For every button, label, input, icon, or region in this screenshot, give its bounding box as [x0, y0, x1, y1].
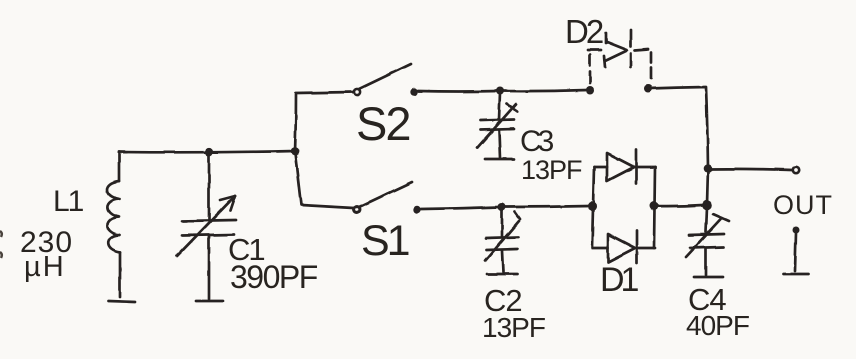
- svg-text:D1: D1: [600, 261, 639, 299]
- wire node B down and right to switch S1: [295, 153, 354, 208]
- svg-text:µH: µH: [24, 251, 66, 283]
- diode pair D1: [592, 150, 655, 263]
- capacitor C4: [689, 207, 724, 275]
- wire OUT node down to node C4: [707, 169, 708, 204]
- ground bar C1: [196, 300, 223, 303]
- node D1 left: [588, 202, 597, 211]
- svg-text:OUT: OUT: [773, 190, 833, 220]
- node junction C1 top: [205, 148, 213, 156]
- node D1 right: [650, 202, 659, 211]
- svg-text:L1: L1: [53, 185, 84, 218]
- node C2 top: [498, 203, 506, 211]
- ground bar C4: [694, 276, 723, 279]
- svg-text:13PF: 13PF: [521, 155, 582, 185]
- switch S1: [354, 182, 421, 213]
- wire OUT node to terminal: [708, 169, 792, 170]
- wire D1 right to node C4: [654, 205, 703, 206]
- svg-text:S1: S1: [361, 217, 409, 265]
- svg-text:C3: C3: [520, 125, 554, 158]
- terminal OUT ground: [783, 227, 808, 275]
- ground bar C2: [487, 273, 517, 276]
- capacitor C2: [486, 209, 518, 272]
- capacitor C3: [481, 93, 514, 158]
- node D2 right: [644, 85, 652, 93]
- terminal OUT open circle: [793, 167, 799, 173]
- ground bar C3: [485, 158, 514, 161]
- svg-text:390PF: 390PF: [230, 259, 318, 295]
- node C4 junction: [702, 200, 712, 210]
- wire S1 to node C2: [421, 207, 500, 209]
- node C3 top: [496, 87, 504, 95]
- wire D2 right corner down to OUT node: [648, 87, 708, 168]
- node D2 left: [586, 86, 594, 94]
- inductor L1: [107, 152, 120, 297]
- node OUT junction: [704, 164, 713, 173]
- diode D2 (dashed): [588, 30, 651, 83]
- svg-text:S2: S2: [356, 97, 410, 150]
- wire S2 to node C3: [418, 90, 498, 93]
- wire node C2 to node D1-left: [502, 206, 590, 207]
- capacitor C1: [182, 154, 236, 299]
- ground bar L1: [108, 301, 135, 302]
- arrow of variable capacitor C3: [477, 104, 517, 148]
- wire top-left horizontal from L1 top to node B: [119, 151, 295, 152]
- arrow of variable capacitor C1: [177, 196, 235, 256]
- node junction B: [291, 147, 300, 156]
- svg-text:13PF: 13PF: [482, 312, 545, 343]
- stray scan mark left edge upper: [0, 231, 2, 237]
- svg-text:D2: D2: [565, 13, 603, 50]
- stray scan mark left edge lower: [0, 252, 2, 258]
- wire node C3 to node D2-left: [500, 90, 588, 91]
- arrow of variable capacitor C4: [686, 214, 729, 257]
- svg-text:40PF: 40PF: [686, 310, 749, 341]
- arrow of variable capacitor C2: [485, 212, 520, 261]
- switch S2: [354, 64, 418, 96]
- wire node B up and right to switch S2: [295, 92, 354, 151]
